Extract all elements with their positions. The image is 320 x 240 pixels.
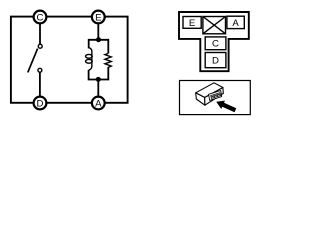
wire C to switch — [39, 23, 41, 44]
wire E down to junction — [97, 23, 99, 40]
svg-text:A: A — [232, 18, 239, 29]
terminal E — [92, 11, 105, 24]
relay coil L1 — [86, 48, 93, 71]
relay connector panel — [209, 91, 222, 101]
switch contact top — [38, 44, 42, 48]
pin E cell — [183, 17, 201, 29]
svg-text:E: E — [189, 18, 195, 29]
wire junction to A — [97, 79, 99, 97]
wire: parallel branch bottom bar — [89, 67, 109, 80]
junction node top — [96, 37, 101, 42]
pin D cell — [205, 53, 226, 68]
relay connector pins — [211, 93, 221, 99]
svg-text:C: C — [37, 13, 44, 24]
svg-text:C: C — [212, 39, 219, 50]
pin X cell (blocked) — [203, 17, 226, 34]
wire: parallel branch top bar — [89, 40, 109, 54]
switch contact bottom — [38, 68, 42, 72]
pin A cell — [227, 16, 244, 29]
terminal D — [34, 97, 47, 110]
arrow pointing to relay — [216, 101, 236, 113]
resistor R1 — [105, 53, 111, 67]
wire: circuit loop outline — [11, 17, 128, 103]
pin C cell — [205, 37, 226, 50]
junction node bottom — [96, 77, 101, 82]
terminal A — [92, 97, 105, 110]
svg-text:D: D — [212, 56, 219, 67]
connector outer T outline — [179, 12, 249, 71]
relay location box — [180, 81, 251, 115]
relay pictogram body — [196, 83, 224, 105]
terminal C — [34, 11, 47, 24]
wire switch to D — [39, 73, 41, 97]
svg-text:D: D — [37, 99, 44, 110]
svg-text:E: E — [95, 13, 101, 24]
switch lever — [28, 49, 38, 73]
svg-text:A: A — [95, 99, 102, 110]
